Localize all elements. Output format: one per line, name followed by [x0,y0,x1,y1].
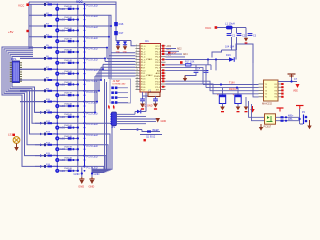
LED D7 [55,72,65,76]
node arrow [40,122,43,125]
power flag [144,139,146,141]
svg-text:AD0: AD0 [167,45,172,48]
net label row 15 [87,155,98,159]
svg-text:XTAL2: XTAL2 [146,74,153,77]
capacitor [140,96,145,104]
capacitor C4 [194,67,209,72]
resistor R16 [44,164,57,168]
resistor network RP1 [10,57,22,83]
ground [220,107,225,113]
wire LED column [56,5,58,171]
wire bus down [105,79,107,170]
svg-text:7: 7 [136,61,137,63]
diode marks row 2 [59,17,77,21]
diode marks row 14 [59,147,77,151]
junction row 10 [56,101,85,108]
svg-text:T1IN: T1IN [229,82,235,85]
beeper cluster [120,128,162,138]
diode marks row 5 [59,49,77,53]
resistor R11 [44,110,57,114]
svg-text:LED: LED [60,29,65,32]
wire row 6 [20,57,85,59]
wire long [166,44,254,63]
op IC U3 MAX232 [259,80,284,106]
ground [244,38,248,44]
resistor R5 [44,45,57,49]
label TXD [229,82,238,92]
diode D20 [135,92,146,114]
svg-text:PSEN: PSEN [154,76,160,78]
ground [78,177,84,189]
resistor R1 [44,2,57,6]
wire row 9 [20,90,85,92]
svg-text:LED: LED [60,148,65,151]
power arrow RST [168,51,177,55]
svg-text:9: 9 [136,66,137,68]
ground [183,76,187,82]
diode marks row 6 [59,60,77,64]
svg-text:GND: GND [94,172,100,176]
wire row feed [20,68,44,70]
node arrow [40,154,43,157]
wire staircase [85,25,136,53]
wire [166,81,253,94]
resistor R17 [185,61,195,66]
svg-text:P3.7: P3.7 [141,89,146,91]
svg-text:R17 10K: R17 10K [185,61,195,64]
svg-text:2: 2 [136,47,137,49]
svg-text:5: 5 [136,55,137,57]
wire feed U3 [250,63,259,97]
junction row 9 [56,90,85,97]
wire row1 stub [85,3,117,5]
wire bottom wrap [85,166,105,172]
svg-text:P0.2: P0.2 [155,54,160,56]
ground [123,45,128,53]
power flag VCC left [18,3,29,7]
wire row 14 [35,144,85,146]
inductor L1 [225,22,235,30]
svg-text:485+: 485+ [288,115,294,118]
svg-text:P0.0: P0.0 [155,49,160,51]
net label row 4 [87,36,98,40]
svg-text:P1.3: P1.3 [141,54,146,56]
svg-text:P0.1: P0.1 [155,51,160,53]
net label row 2 [87,14,98,18]
svg-text:8: 8 [136,64,137,66]
svg-text:GND: GND [161,120,167,123]
svg-text:4: 4 [136,53,137,55]
pin labels right [177,47,188,56]
junction [207,58,217,70]
svg-text:P2.6: P2.6 [155,81,160,83]
diode marks row 3 [59,28,77,32]
svg-text:GND: GND [74,172,80,176]
svg-text:GND: GND [78,185,84,189]
wire row feed [20,101,44,103]
svg-text:LED: LED [60,51,65,54]
svg-text:1: 1 [136,45,137,47]
ground T [277,108,284,112]
junction row 11 [56,111,85,118]
svg-text:P2.5: P2.5 [155,84,160,86]
svg-text:P0.3: P0.3 [155,57,160,59]
LED D11 [55,115,65,119]
wire left wrap [6,51,44,145]
wire left wrap [10,55,44,124]
svg-text:GND: GND [123,52,128,54]
LED D13 [55,136,65,140]
connector J2 [110,112,116,129]
svg-text:LED: LED [60,159,65,162]
svg-text:LED: LED [60,62,65,65]
svg-text:L1 10uH: L1 10uH [225,22,235,26]
wire staircase [85,57,136,61]
svg-text:RP1: RP1 [11,57,17,61]
wire row 8 [20,79,85,81]
svg-text:17: 17 [136,88,138,90]
svg-text:D19: D19 [226,54,231,57]
capacitor C3 [248,34,257,38]
svg-text:AD2: AD2 [177,47,182,50]
svg-text:15: 15 [136,83,138,85]
svg-text:13: 13 [136,77,138,79]
wire row 3 [29,25,85,27]
wire row 5 [29,47,85,49]
svg-text:AD4: AD4 [183,53,188,56]
svg-text:XTAL1: XTAL1 [146,58,153,61]
label red [141,105,153,108]
svg-text:P3.4: P3.4 [141,81,146,83]
svg-text:P3.3: P3.3 [141,79,146,81]
connector P2 [302,111,307,124]
svg-text:P3.0: P3.0 [141,70,146,72]
svg-text:16: 16 [136,85,138,87]
crystal Y1 [148,89,160,96]
svg-text:3: 3 [136,50,137,52]
wire left wrap [2,47,44,166]
svg-text:R1OUT: R1OUT [229,88,238,91]
svg-text:VCC: VCC [155,46,160,48]
wire row 10 [20,101,85,103]
diode marks row 8 [59,82,77,86]
svg-text:P2.4: P2.4 [155,87,160,89]
net label VCC top [76,0,83,4]
junction row 15 [56,155,85,162]
wire [116,41,136,46]
ground [236,107,241,113]
junction row 7 [56,68,85,75]
capacitor [153,96,158,104]
power arrow [293,84,300,92]
diode D16 [114,22,124,26]
svg-text:P0.4: P0.4 [155,59,160,61]
wire staircase [85,70,136,92]
wire row2 to J1 [85,15,112,79]
LED D15 [55,158,65,162]
wire row 15 [35,155,85,157]
svg-text:485-: 485- [288,118,293,121]
diode marks row 1 [59,6,77,10]
wire staircase [85,47,136,59]
wire row feed [20,90,44,92]
svg-text:VCC: VCC [76,0,83,4]
LED D1 [55,7,65,11]
svg-text:LED: LED [60,19,65,22]
svg-text:PC817: PC817 [264,126,272,129]
svg-text:GND: GND [116,52,121,54]
svg-text:P3.6: P3.6 [141,87,146,89]
resistor R8 [44,78,57,82]
resistor R4 [44,34,57,38]
svg-text:P1.7: P1.7 [141,65,146,67]
RC reset cluster [166,65,212,70]
LED D9 [55,93,65,97]
net label row 3 [87,25,98,29]
svg-text:D17: D17 [119,31,124,35]
svg-text:GND: GND [89,185,95,189]
net label row 10 [87,101,98,105]
wire [249,101,265,121]
diode marks row 13 [59,136,77,140]
svg-text:P0.7: P0.7 [155,68,160,70]
net label row 12 [87,122,98,126]
junction row 14 [56,144,85,151]
wire row 4 [29,36,85,38]
capacitor C5 [217,88,226,107]
wire row 1 [29,3,85,5]
wire left wrap [8,53,44,134]
svg-text:P0.5: P0.5 [155,62,160,64]
diode [116,42,120,45]
LED D12 [55,126,65,130]
net label row 8 [87,79,98,83]
wire [115,5,117,42]
node arrow [40,111,43,114]
ground arrow [156,118,167,123]
resistor R7 [44,67,57,71]
junction row 16 [56,165,85,172]
ground [14,143,19,151]
ground T [288,74,296,78]
diode [123,42,127,45]
svg-text:LED: LED [60,40,65,43]
wire J2 out [117,114,157,123]
svg-text:MAX232: MAX232 [262,102,273,106]
net label row 16 [87,165,98,169]
wire row 12 [35,122,85,124]
svg-text:DOWNLOAD: DOWNLOAD [113,83,126,86]
pin marks [162,45,164,88]
wire [276,109,304,124]
svg-text:P1.0: P1.0 [141,46,146,48]
power arrow [250,106,254,113]
resistor R2 [44,13,57,17]
LED D5 [55,50,65,54]
LED D4 [55,39,65,43]
wire row 16 [35,165,85,167]
svg-text:U1: U1 [145,39,149,43]
wire staircase [85,36,136,56]
wire bottom wrap [85,134,111,170]
label [225,46,235,49]
diode marks row 9 [59,93,77,97]
ground T [296,106,304,110]
diode marks row 15 [59,157,77,161]
capacitor C2 [237,34,246,38]
svg-text:JP2: JP2 [111,126,116,129]
svg-text:+: + [217,93,219,97]
svg-text:BEEP: BEEP [153,129,160,132]
net label row 6 [87,57,98,61]
ground [89,177,95,189]
svg-text:LED: LED [60,170,65,173]
wire row feed [20,79,44,81]
resistor R3 [44,24,57,28]
wire row 13 [35,133,85,135]
svg-text:11: 11 [136,72,138,74]
LED D3 [55,28,65,32]
wire left wrap [12,57,44,113]
svg-text:+: + [233,93,235,97]
svg-text:14: 14 [136,80,138,82]
net label row 13 [87,133,98,137]
wire staircase [85,73,136,103]
wire [278,78,297,83]
wire ground drops [81,167,93,177]
svg-text:LED: LED [60,83,65,86]
wire row 11 [35,111,85,113]
capacitor C6 [233,88,242,107]
resistor R6 [44,56,57,60]
junction row 8 [56,79,85,86]
wire [143,92,161,96]
bus column [84,3,86,168]
resistor R13 [44,132,57,136]
diode marks row 12 [59,125,77,129]
ground [116,45,121,53]
power flag [180,61,183,64]
ground [140,104,145,110]
wire row 2 [29,14,85,16]
svg-text:VEE: VEE [293,89,298,92]
svg-text:10: 10 [136,69,138,71]
svg-text:LED: LED [60,116,65,119]
junction row 3 [56,25,85,32]
wire bottom wrap [85,145,109,171]
junction [220,83,238,88]
junction [298,118,300,120]
diode marks row 10 [59,103,77,107]
pin labels right [167,45,172,56]
svg-text:P1.2: P1.2 [141,51,146,53]
ground [307,120,311,129]
node arrow [40,144,43,147]
svg-text:LED: LED [60,137,65,140]
svg-text:P1.6: P1.6 [141,62,146,64]
wire bottom wrap [85,156,107,172]
node arrow [40,133,43,136]
node arrow [40,165,43,168]
ground [244,97,249,112]
diode marks row 11 [59,114,77,118]
svg-text:VCC: VCC [205,26,212,30]
LED D2 [55,18,65,22]
wire left wrap [4,49,44,156]
power flag [108,105,115,110]
svg-text:LED: LED [60,73,65,76]
junction row 5 [56,47,85,54]
connector J1 [110,79,131,104]
junction row 4 [56,36,85,43]
junction row 13 [56,133,85,140]
junction row 12 [56,122,85,129]
svg-text:D16: D16 [119,22,124,26]
diode marks [281,115,294,122]
wire staircase [85,67,136,81]
LED D6 [55,61,65,65]
power flag VCC [205,26,217,30]
svg-text:6: 6 [136,58,137,60]
wire row feed [20,57,44,59]
net label row 1 [87,3,98,7]
wire [212,28,246,58]
op IC U1 AT89C51 [136,39,166,92]
svg-text:VCC: VCC [18,4,25,8]
diode marks row 16 [59,168,77,172]
wire top bus [29,2,116,41]
wire node column [77,5,79,171]
resistor R15 [44,153,57,157]
LED D10 [55,104,65,108]
wire left bus [29,2,31,49]
svg-text:LED: LED [60,127,65,130]
ground [259,124,263,131]
power flag +5V left [8,30,29,34]
resistor R12 [44,121,57,125]
net label row 11 [87,111,98,115]
diode D19 [226,54,234,62]
LED D16 [55,169,65,173]
diode marks row 4 [59,39,77,43]
svg-text:+5V: +5V [8,30,13,34]
wire [185,72,206,75]
wire bus serial [166,68,253,88]
net label row 14 [87,144,98,148]
svg-text:P0.6: P0.6 [155,65,160,67]
svg-text:RST: RST [141,68,146,70]
svg-text:12: 12 [136,75,138,77]
wire staircase [85,76,136,113]
svg-text:LED: LED [60,105,65,108]
label GND [74,172,100,176]
diode marks row 7 [59,71,77,75]
wire bottom wrap [85,123,113,169]
svg-text:ALE: ALE [156,72,161,75]
capacitor C1 [227,34,236,38]
net label row 5 [87,47,98,51]
diode D17 [114,31,124,35]
wire row 7 [20,68,85,70]
svg-text:LED: LED [60,8,65,11]
svg-text:Q1 9012: Q1 9012 [146,135,156,138]
svg-text:P2.7: P2.7 [155,79,160,81]
resistor R10 [44,99,57,103]
label [294,78,298,81]
junction row 2 [56,14,85,21]
speaker LS1 [8,133,20,144]
svg-text:P1.1: P1.1 [141,49,146,51]
